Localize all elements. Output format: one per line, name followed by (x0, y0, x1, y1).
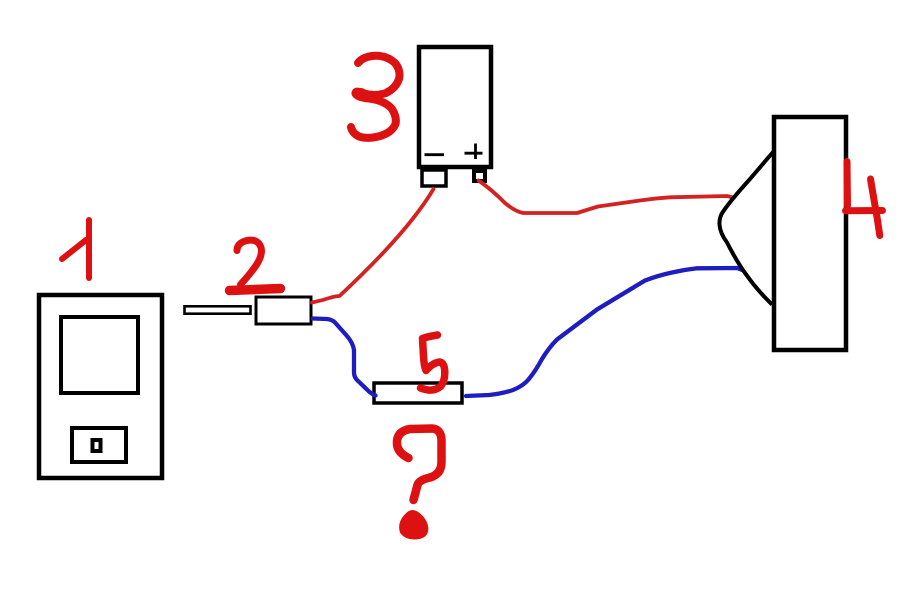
component X5 (unknown inline part) body (374, 383, 462, 403)
battery positive terminal tab (474, 171, 485, 181)
battery negative terminal tab (422, 170, 446, 186)
question mark annotation (397, 429, 442, 538)
blue wire: connector J2 to component X5 (313, 319, 376, 396)
blue wire: component X5 to speaker cone (466, 268, 742, 396)
player U1 screen (61, 317, 138, 393)
label 2 (230, 240, 281, 290)
speaker SP4 frame (774, 117, 846, 350)
player U1 button (72, 428, 126, 462)
label 1 (62, 220, 89, 278)
battery plus polarity mark (465, 144, 483, 160)
label 5 (421, 335, 445, 390)
label 3 (351, 56, 400, 138)
battery BT3 body (419, 47, 491, 167)
red wire: connector J2 to battery negative terminal (312, 189, 434, 303)
player U1 (device 1) outer body (39, 295, 162, 478)
connector J2 plug tip (185, 306, 251, 313)
connector J2 body (256, 297, 311, 324)
red wire: battery positive terminal to speaker cone (479, 181, 734, 214)
speaker SP4 cone (719, 152, 773, 305)
label 4 (846, 162, 883, 236)
battery minus polarity mark (425, 153, 445, 156)
